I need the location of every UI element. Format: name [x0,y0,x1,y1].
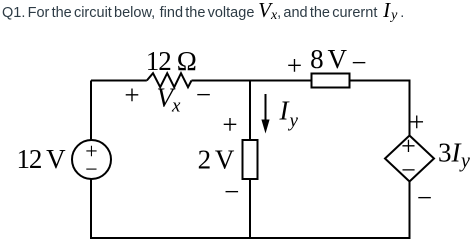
svg-text:−: − [401,155,416,184]
svg-text:12 V: 12 V [17,144,67,174]
wire top middle segment [192,80,312,82]
svg-text:8 V: 8 V [310,44,347,74]
wire middle vertical bottom [249,179,251,238]
current Iy arrow [265,94,267,124]
svg-text:+: + [409,107,424,137]
svg-text:−: − [85,156,97,181]
svg-text:12 Ω: 12 Ω [146,46,196,76]
wire right vertical top [409,81,411,137]
resistor R 12 ohm zigzag [147,73,192,87]
voltage source 8V box [312,74,350,88]
wire right vertical bottom [409,181,411,238]
svg-text:+: + [222,109,237,139]
wire bottom [90,237,411,239]
title text [2,2,404,22]
voltage source 2V box [243,140,258,179]
svg-text:−: − [196,79,211,109]
svg-text:+: + [287,51,302,81]
dependent source U1 diamond [385,136,434,182]
svg-text:+: + [124,80,139,110]
svg-text:−: − [351,47,366,77]
svg-text:−: − [417,182,432,212]
wire left vertical bottom [90,179,92,238]
svg-text:y: y [288,111,299,132]
svg-text:y: y [459,150,470,172]
wire middle vertical top [249,81,251,141]
voltage source V1 12V circle [72,140,111,179]
wire top right segment [350,80,411,82]
wire top left segment [91,80,147,82]
svg-text:2 V: 2 V [198,144,235,174]
svg-text:3I: 3I [438,138,463,168]
svg-text:x: x [171,95,181,116]
svg-text:−: − [224,177,239,207]
wire left vertical top [90,81,92,141]
